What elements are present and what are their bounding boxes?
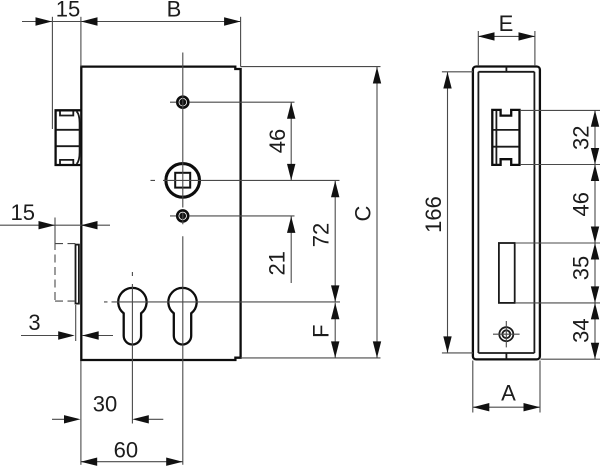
arrow A left — [473, 403, 490, 411]
arrow 15 B shared — [81, 17, 98, 25]
arrow 166 up — [443, 72, 451, 89]
arrow 60 left — [81, 458, 98, 466]
arrow E right — [519, 32, 536, 40]
svg-text:F: F — [308, 324, 333, 337]
dimension line 60 — [81, 461, 183, 463]
vertical centerline main axis — [182, 53, 184, 465]
dimension line 21 — [290, 216, 292, 283]
dimension line A — [473, 406, 540, 408]
arrow 35 down — [591, 286, 599, 303]
extension line dead bolt 15 — [54, 218, 56, 243]
extension line latch bottom side view — [520, 164, 600, 166]
arrow 15-2 right — [81, 221, 98, 229]
side view screw hole crosshair — [493, 321, 520, 347]
latch bolt front view — [56, 110, 81, 165]
side view top seam tick — [505, 67, 507, 72]
arrow 46 up — [287, 102, 295, 119]
svg-text:35: 35 — [568, 256, 593, 280]
side view cylinder slot — [499, 243, 515, 303]
dimension line E — [478, 35, 535, 37]
arrow 3 left — [58, 331, 74, 339]
dimension line 72 — [334, 181, 336, 302]
svg-text:C: C — [350, 205, 375, 221]
dimension line 15 B top — [22, 21, 241, 23]
extension line case right edge top — [240, 17, 242, 67]
arrow 72 up — [331, 181, 339, 198]
svg-text:15: 15 — [10, 200, 34, 225]
spindle follower square hole — [166, 164, 200, 198]
lock case outline front view — [81, 67, 240, 360]
side view latch left band — [495, 111, 497, 165]
arrow 15 top left — [36, 17, 53, 25]
horizontal centerline upper screw — [170, 101, 295, 103]
latch bolt bevel line — [77, 111, 80, 164]
extension line bottom edge to C — [241, 357, 381, 359]
extension line body bottom side view — [541, 358, 600, 360]
arrow 46r up — [591, 165, 599, 182]
arrow 32 down — [591, 148, 599, 165]
dimension line 32 46 35 34 column — [594, 110, 596, 359]
arrow 15-2 left — [39, 221, 56, 229]
side view screw hole — [499, 327, 513, 341]
cylinder hole 1 keyhole — [118, 288, 146, 345]
extension lines 166 — [442, 72, 473, 353]
arrow 35 up — [591, 243, 599, 260]
svg-text:A: A — [501, 381, 516, 406]
arrow 32 up — [591, 110, 599, 127]
arrow 30 left — [64, 415, 81, 423]
svg-text:60: 60 — [114, 437, 138, 462]
arrow B right — [224, 17, 241, 25]
dimension line F — [334, 303, 336, 358]
extension line latch 15 left — [51, 17, 53, 129]
latch divider lines — [57, 130, 80, 146]
latch top notch — [60, 111, 73, 115]
extension line latch top side view — [520, 109, 600, 111]
arrow E left — [478, 32, 495, 40]
arrow 166 down — [443, 336, 451, 353]
dimension line C — [376, 67, 378, 358]
arrow F down — [331, 341, 339, 358]
dimension line 166 — [447, 72, 449, 353]
dimension line 3 — [21, 335, 113, 337]
svg-text:34: 34 — [568, 318, 593, 342]
arrow 21 up — [287, 216, 295, 233]
arrow A right — [524, 403, 541, 411]
svg-text:46: 46 — [265, 129, 290, 153]
vertical centerline cylinder 1 — [131, 272, 133, 424]
arrow 34 down — [591, 343, 599, 360]
side view body outline — [473, 67, 540, 360]
side view latch block — [492, 110, 519, 165]
arrow 46 down — [287, 164, 295, 181]
extension line case left bottom — [80, 361, 82, 465]
arrow 30 right — [132, 415, 149, 423]
svg-text:3: 3 — [28, 310, 40, 335]
svg-text:166: 166 — [421, 196, 446, 233]
extension line case left edge top — [80, 17, 82, 67]
dimension line 15 dead bolt — [0, 224, 110, 226]
svg-text:E: E — [499, 11, 514, 36]
arrow 60 right — [166, 458, 183, 466]
extension lines A — [473, 361, 540, 413]
arrow 72 down — [331, 285, 339, 302]
svg-text:32: 32 — [568, 126, 593, 150]
upper screw hole — [177, 97, 188, 108]
arrow 3 right — [82, 331, 99, 339]
arrow F up — [331, 303, 339, 320]
dead bolt extended hidden outline — [55, 242, 75, 303]
side view bottom seam tick — [505, 353, 507, 359]
dead bolt retracted strip — [76, 245, 79, 304]
cylinder hole 2 keyhole — [168, 288, 196, 345]
arrow C down — [373, 341, 381, 358]
svg-text:46: 46 — [568, 192, 593, 216]
extension line top edge to C — [241, 66, 381, 68]
arrow 46r down — [591, 227, 599, 244]
svg-text:15: 15 — [56, 0, 80, 22]
dimension line 46 left view — [290, 102, 292, 180]
arrow 34 up — [591, 303, 599, 320]
extension lines E — [478, 31, 535, 66]
svg-text:72: 72 — [308, 223, 333, 247]
horizontal centerline cylinders — [104, 301, 340, 303]
latch bottom notch — [60, 160, 73, 164]
arrow C up — [373, 67, 381, 84]
lower screw hole — [177, 210, 188, 221]
horizontal centerline lower screw — [170, 215, 295, 217]
dimension line 30 — [52, 418, 163, 420]
extension line slot top — [515, 242, 600, 244]
svg-text:21: 21 — [265, 251, 290, 275]
svg-text:30: 30 — [93, 392, 117, 417]
horizontal centerline spindle — [151, 179, 340, 181]
extension line slot bottom — [515, 302, 600, 304]
extension line dead bolt 3 — [75, 305, 77, 341]
side view latch dividers — [493, 130, 519, 147]
side view inner wall lines — [478, 72, 534, 353]
svg-text:B: B — [167, 0, 182, 21]
